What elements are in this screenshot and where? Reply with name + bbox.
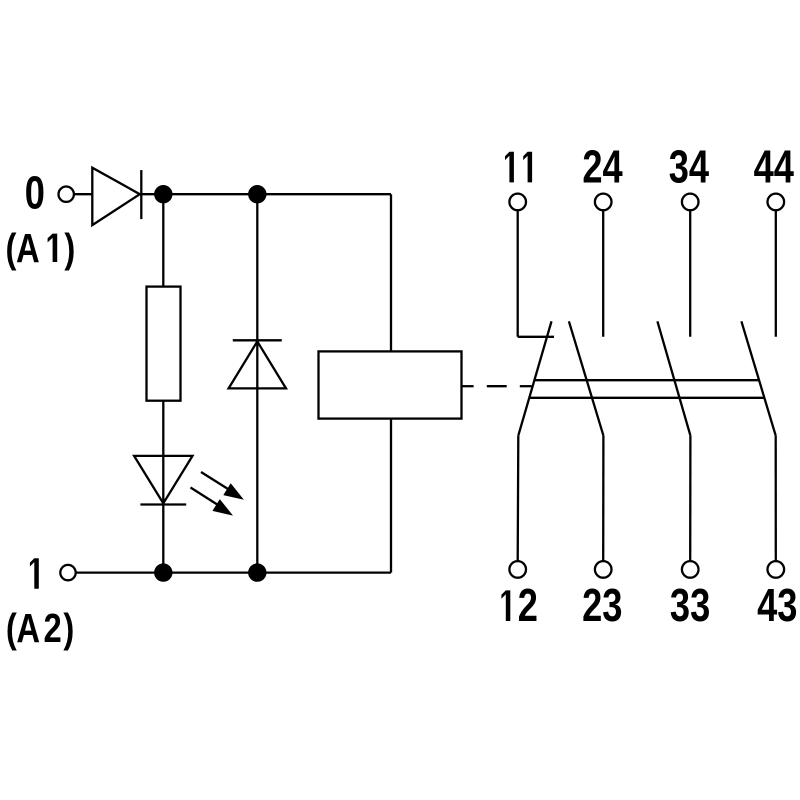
wire resistor branch vertical top <box>162 194 164 286</box>
label 1 <box>30 558 39 589</box>
svg-text:): ) <box>63 604 74 650</box>
diode D2 suppressor <box>229 340 286 388</box>
wire blade 2 to terminal 23 <box>602 436 605 561</box>
node junction dot 1 (top, resistor branch) <box>154 185 172 203</box>
label 44 <box>754 140 794 192</box>
wire terminal 24 down <box>602 210 604 336</box>
LED arrow 2 <box>191 488 234 516</box>
wire terminal 11 down <box>517 210 519 336</box>
terminal 43 circle <box>768 561 785 578</box>
terminal 34 circle <box>682 194 699 211</box>
dashed mechanical link from coil <box>461 385 531 387</box>
node junction dot 4 (bottom, diode branch) <box>248 563 266 581</box>
wire coil branch vertical bottom <box>390 419 392 573</box>
terminal A1 circle <box>58 187 73 202</box>
svg-text:34: 34 <box>669 140 709 192</box>
NC fixed contact arm (11) <box>518 336 554 338</box>
resistor R1 <box>147 287 181 401</box>
label 0 <box>25 166 45 218</box>
wire bottom rail <box>76 571 391 573</box>
svg-text:44: 44 <box>754 140 794 192</box>
contact blade 4 (NO 44-43) <box>741 321 775 435</box>
label (A1) <box>6 224 76 270</box>
node junction dot 2 (top, diode branch) <box>248 185 266 203</box>
node junction dot 3 (bottom, resistor branch) <box>154 563 172 581</box>
svg-text:0: 0 <box>25 166 45 218</box>
LED arrow 1 <box>201 472 244 500</box>
label 12 <box>501 579 538 631</box>
svg-text:2: 2 <box>43 604 61 650</box>
relay coil K1 <box>319 351 462 418</box>
svg-text:2: 2 <box>518 579 538 631</box>
terminal 11 circle <box>509 194 526 211</box>
terminal 33 circle <box>682 561 699 578</box>
label 34 <box>669 140 709 192</box>
wire terminal A1 to diode D1 <box>75 193 93 195</box>
LED D3 <box>134 456 192 505</box>
svg-text:): ) <box>64 224 75 270</box>
label 43 <box>757 579 797 631</box>
wire blade 4 to terminal 43 <box>775 436 777 561</box>
contact blade 2 (NO 24-23) <box>569 321 604 435</box>
svg-text:23: 23 <box>582 579 622 631</box>
contact blade 1 (NC 11-12) <box>518 321 551 435</box>
label 24 <box>582 140 622 192</box>
mechanical coupling bar upper <box>534 379 759 381</box>
wire blade 1 to terminal 12 <box>517 436 520 561</box>
svg-text:43: 43 <box>757 579 797 631</box>
wire blade 3 to terminal 33 <box>689 436 692 561</box>
terminal 12 circle <box>509 561 526 578</box>
contact blade 3 (NO 34-33) <box>657 321 690 435</box>
label 33 <box>670 579 710 631</box>
wire suppressor branch vertical <box>256 194 258 572</box>
wire coil branch vertical top <box>390 194 392 351</box>
svg-text:33: 33 <box>670 579 710 631</box>
label (A2) <box>6 604 74 650</box>
terminal 44 circle <box>768 194 785 211</box>
terminal 23 circle <box>595 561 612 578</box>
label 11 <box>505 152 532 183</box>
terminal A2 circle <box>60 565 75 580</box>
wire resistor to LED and down to bottom rail <box>162 401 164 573</box>
svg-text:A: A <box>16 224 40 270</box>
mechanical coupling bar lower <box>529 397 764 399</box>
wire terminal 44 down <box>775 210 777 336</box>
wire diode D1 to coil branch <box>141 193 391 195</box>
svg-text:A: A <box>16 604 40 650</box>
terminal 24 circle <box>595 194 612 211</box>
wire terminal 34 down <box>689 210 691 336</box>
label 23 <box>582 579 622 631</box>
diode D1 <box>92 168 141 225</box>
svg-text:24: 24 <box>582 140 622 192</box>
